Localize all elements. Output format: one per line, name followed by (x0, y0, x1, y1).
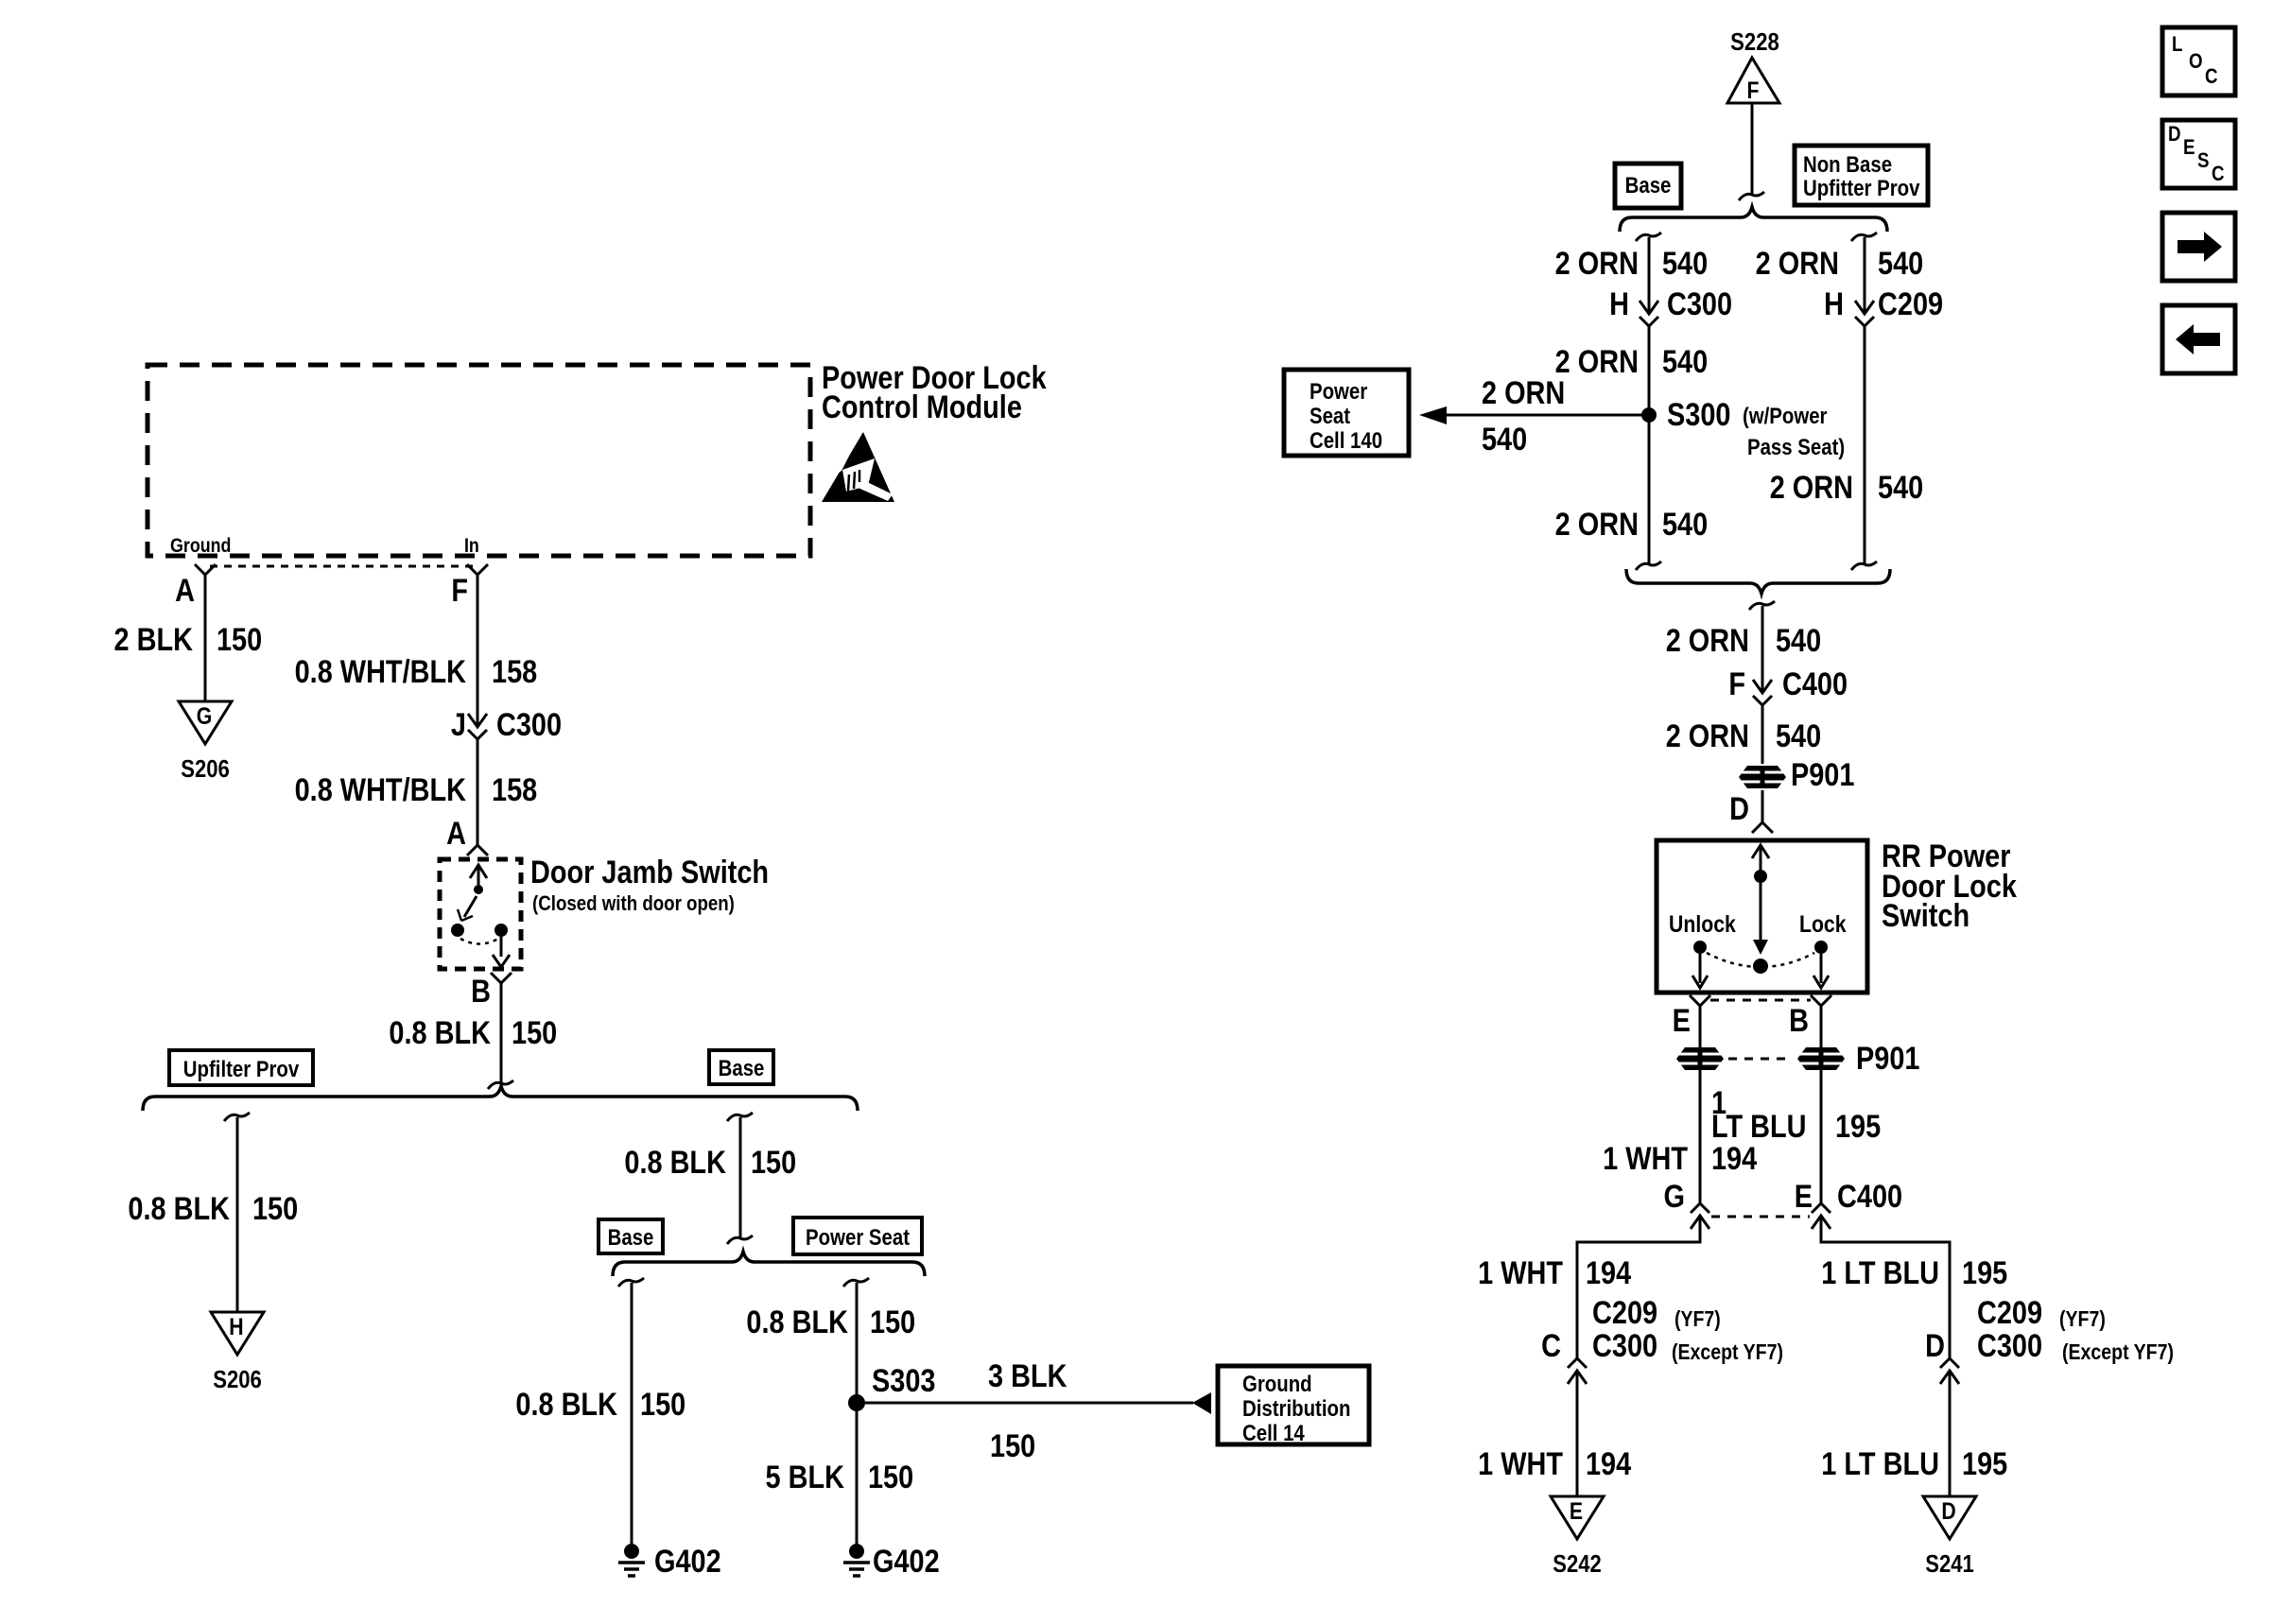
svg-text:C209: C209 (1592, 1294, 1657, 1331)
svg-text:P901: P901 (1791, 756, 1854, 793)
svg-text:G: G (1664, 1178, 1685, 1215)
svg-text:150: 150 (751, 1144, 796, 1181)
svg-text:B: B (1789, 1002, 1809, 1039)
svg-text:195: 195 (1962, 1254, 2007, 1291)
svg-text:(YF7): (YF7) (2059, 1307, 2106, 1332)
svg-text:C300: C300 (1667, 285, 1732, 322)
svg-text:F: F (451, 572, 468, 609)
svg-text:C400: C400 (1782, 665, 1848, 702)
svg-text:194: 194 (1586, 1445, 1632, 1482)
svg-text:150: 150 (217, 621, 262, 658)
svg-text:158: 158 (492, 771, 537, 808)
svg-text:540: 540 (1482, 421, 1527, 458)
svg-text:E: E (1673, 1002, 1691, 1039)
svg-text:H: H (1824, 285, 1844, 322)
svg-text:194: 194 (1711, 1140, 1758, 1177)
svg-text:S206: S206 (181, 755, 230, 783)
svg-text:C300: C300 (496, 706, 562, 743)
svg-text:1 LT BLU: 1 LT BLU (1821, 1254, 1939, 1291)
svg-text:D: D (1941, 1497, 1955, 1524)
svg-text:G402: G402 (654, 1543, 721, 1580)
svg-text:540: 540 (1662, 245, 1708, 282)
svg-text:C300: C300 (1977, 1327, 2042, 1364)
svg-text:195: 195 (1835, 1108, 1881, 1145)
svg-text:2 ORN: 2 ORN (1666, 622, 1749, 659)
svg-text:2 ORN: 2 ORN (1770, 469, 1853, 506)
svg-text:150: 150 (868, 1459, 913, 1495)
svg-text:Unlock: Unlock (1669, 910, 1736, 937)
svg-text:S: S (2197, 150, 2209, 173)
svg-text:S242: S242 (1553, 1550, 1602, 1578)
svg-text:150: 150 (252, 1190, 298, 1227)
svg-text:150: 150 (870, 1304, 915, 1340)
svg-text:540: 540 (1878, 469, 1923, 506)
svg-text:150: 150 (640, 1386, 685, 1423)
svg-text:Ground: Ground (1242, 1371, 1312, 1396)
svg-text:150: 150 (990, 1427, 1035, 1464)
svg-text:1 WHT: 1 WHT (1603, 1140, 1688, 1177)
svg-text:S228: S228 (1730, 28, 1779, 56)
svg-text:Base: Base (719, 1055, 765, 1080)
svg-text:Seat: Seat (1310, 403, 1351, 428)
svg-text:C400: C400 (1837, 1178, 1902, 1215)
svg-text:1 WHT: 1 WHT (1478, 1445, 1563, 1482)
svg-text:H: H (229, 1313, 243, 1339)
svg-text:C: C (2212, 164, 2225, 186)
svg-text:2 ORN: 2 ORN (1555, 343, 1639, 380)
svg-text:Switch: Switch (1882, 897, 1969, 934)
svg-text:0.8 BLK: 0.8 BLK (746, 1304, 848, 1340)
svg-text:F: F (1728, 665, 1745, 702)
svg-text:Door Jamb Switch: Door Jamb Switch (530, 854, 769, 890)
svg-text:Pass Seat): Pass Seat) (1747, 434, 1845, 459)
svg-text:S206: S206 (213, 1366, 262, 1393)
svg-text:S303: S303 (872, 1362, 935, 1399)
svg-text:2 ORN: 2 ORN (1555, 245, 1639, 282)
svg-text:C300: C300 (1592, 1327, 1657, 1364)
svg-text:2 ORN: 2 ORN (1666, 717, 1749, 754)
svg-text:Upfilter Prov: Upfilter Prov (183, 1056, 300, 1081)
svg-text:158: 158 (492, 653, 537, 690)
svg-text:1 LT BLU: 1 LT BLU (1821, 1445, 1939, 1482)
svg-text:A: A (175, 572, 195, 609)
svg-text:0.8 BLK: 0.8 BLK (624, 1144, 726, 1181)
svg-text:1 WHT: 1 WHT (1478, 1254, 1563, 1291)
svg-text:G: G (197, 702, 213, 729)
svg-text:Base: Base (608, 1224, 654, 1250)
svg-text:2 ORN: 2 ORN (1555, 506, 1639, 543)
svg-text:540: 540 (1878, 245, 1923, 282)
svg-text:Distribution: Distribution (1242, 1395, 1350, 1421)
svg-text:G402: G402 (873, 1543, 940, 1580)
svg-text:195: 195 (1962, 1445, 2007, 1482)
svg-text:0.8 BLK: 0.8 BLK (515, 1386, 617, 1423)
svg-text:Control Module: Control Module (822, 389, 1022, 425)
svg-text:Cell 140: Cell 140 (1310, 427, 1382, 453)
svg-text:LT BLU: LT BLU (1711, 1108, 1807, 1145)
svg-text:(w/Power: (w/Power (1743, 403, 1828, 428)
svg-text:J: J (451, 706, 466, 743)
svg-text:(Closed with door open): (Closed with door open) (532, 893, 735, 916)
svg-text:D: D (1925, 1327, 1945, 1364)
svg-text:Non Base: Non Base (1803, 151, 1892, 177)
svg-text:P901: P901 (1856, 1040, 1919, 1077)
svg-text:Upfitter Prov: Upfitter Prov (1803, 175, 1920, 200)
svg-text:C: C (2205, 66, 2218, 89)
svg-text:150: 150 (512, 1014, 557, 1051)
svg-text:C209: C209 (1878, 285, 1943, 322)
svg-text:C: C (1541, 1327, 1561, 1364)
svg-text:Lock: Lock (1799, 910, 1847, 937)
svg-text:In: In (464, 535, 479, 558)
svg-text:(Except YF7): (Except YF7) (1672, 1340, 1783, 1365)
svg-text:(YF7): (YF7) (1674, 1307, 1721, 1332)
svg-text:E: E (1570, 1497, 1583, 1524)
svg-text:D: D (1729, 790, 1749, 827)
svg-text:540: 540 (1662, 506, 1708, 543)
svg-text:L: L (2172, 34, 2182, 57)
svg-text:O: O (2189, 51, 2203, 74)
svg-text:E: E (1795, 1178, 1813, 1215)
svg-text:5 BLK: 5 BLK (766, 1459, 845, 1495)
svg-text:540: 540 (1776, 717, 1821, 754)
svg-text:F: F (1747, 77, 1760, 103)
svg-text:E: E (2183, 137, 2195, 160)
svg-text:(Except YF7): (Except YF7) (2062, 1340, 2174, 1365)
svg-text:S241: S241 (1925, 1550, 1974, 1578)
svg-text:194: 194 (1586, 1254, 1632, 1291)
svg-text:B: B (471, 973, 491, 1010)
svg-text:A: A (446, 815, 466, 852)
svg-text:Ground: Ground (170, 535, 231, 558)
svg-text:2 BLK: 2 BLK (114, 621, 194, 658)
svg-text:Base: Base (1625, 172, 1672, 198)
svg-text:540: 540 (1662, 343, 1708, 380)
svg-text:3 BLK: 3 BLK (988, 1357, 1067, 1394)
svg-text:Cell 14: Cell 14 (1242, 1420, 1305, 1445)
svg-text:2 ORN: 2 ORN (1482, 374, 1565, 411)
svg-text:Power: Power (1310, 378, 1368, 404)
svg-text:540: 540 (1776, 622, 1821, 659)
svg-text:C209: C209 (1977, 1294, 2042, 1331)
svg-text:0.8 WHT/BLK: 0.8 WHT/BLK (295, 771, 467, 808)
svg-text:D: D (2168, 124, 2181, 147)
svg-text:Power Seat: Power Seat (806, 1224, 910, 1250)
svg-text:0.8 WHT/BLK: 0.8 WHT/BLK (295, 653, 467, 690)
svg-text:S300: S300 (1667, 396, 1730, 433)
svg-text:2 ORN: 2 ORN (1756, 245, 1839, 282)
svg-text:0.8 BLK: 0.8 BLK (389, 1014, 491, 1051)
svg-text:0.8 BLK: 0.8 BLK (128, 1190, 230, 1227)
svg-text:H: H (1609, 285, 1629, 322)
